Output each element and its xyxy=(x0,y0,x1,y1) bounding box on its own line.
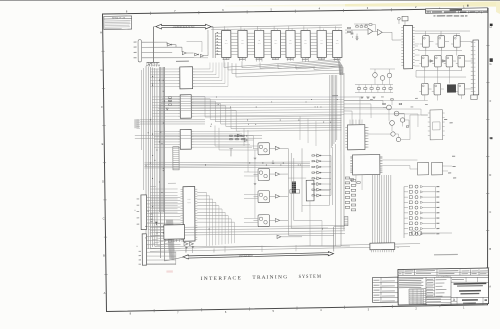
bundle B labels xyxy=(134,119,139,128)
svg-text:U2: U2 xyxy=(242,40,244,42)
antenna T symbol xyxy=(230,149,232,157)
IC U4 top pin stubs xyxy=(273,26,275,30)
IC row left pin number marks xyxy=(217,32,218,33)
IC U17 counter tall xyxy=(403,25,412,68)
svg-text:T R A I N I N G: T R A I N I N G xyxy=(252,275,287,281)
svg-text:A: A xyxy=(104,291,106,295)
wire resistor row top xyxy=(354,23,368,25)
IC U30 xyxy=(347,125,365,150)
test point row xyxy=(149,65,150,66)
flip-flop U22 xyxy=(435,55,442,67)
connector J2 pins xyxy=(146,197,180,198)
parts list text lines xyxy=(399,278,423,279)
wire J1 pin 3 xyxy=(142,51,172,54)
and gate A2 xyxy=(182,51,186,54)
IC U3 top pin stubs xyxy=(257,26,259,30)
flip-flop U19 xyxy=(438,36,445,48)
wire bus to J3 corner xyxy=(172,229,174,237)
wire osc to U17 xyxy=(391,32,393,40)
svg-text:H: H xyxy=(100,31,102,35)
wire U9 right fanout xyxy=(195,68,210,70)
wire FF row3 drops xyxy=(424,95,426,100)
IC U7 74LS latch xyxy=(317,30,326,57)
notes text lines xyxy=(105,20,131,21)
bus top bend xyxy=(146,62,154,66)
revisions row2 text marks xyxy=(427,11,430,12)
wire long runs into right section xyxy=(344,99,428,102)
svg-text:B: B xyxy=(489,247,491,251)
module box M1 xyxy=(417,162,428,175)
wire FF cells left feeds xyxy=(244,145,258,148)
wire stubs on U30 top xyxy=(349,120,351,125)
svg-text:A: A xyxy=(489,284,491,288)
IC U6 74LS latch xyxy=(301,30,310,57)
wire stair fan from U12 xyxy=(197,191,206,193)
wire feed band into right section xyxy=(344,96,360,98)
gray fan wedge under bus xyxy=(166,219,174,259)
IC U7 bottom pins xyxy=(318,58,320,60)
wire opto ladder feeds from U32 area xyxy=(355,175,357,186)
svg-text:74LS: 74LS xyxy=(320,43,323,45)
registration tick above top border xyxy=(467,5,468,7)
IC U9 label above xyxy=(176,61,189,62)
IC U8 top pin stubs xyxy=(335,26,337,30)
flip-flop U20 xyxy=(453,36,460,48)
svg-text:NOTES: 74 - XX: NOTES: 74 - XX xyxy=(112,17,126,19)
auxiliary table text xyxy=(373,279,379,282)
IC U2 bottom pins xyxy=(239,58,241,61)
wire bottom risers to arrow xyxy=(224,246,226,252)
connector J3 pin labels xyxy=(139,250,141,253)
wire gate cluster xyxy=(248,139,254,141)
registration tab right edge xyxy=(490,24,493,26)
ground near FF1 xyxy=(254,157,257,159)
wire band A right drops xyxy=(299,116,301,140)
resistor diode row 1 xyxy=(230,135,233,136)
wire Q4 Q5 links xyxy=(367,133,390,136)
bus B end arrowhead xyxy=(155,222,157,225)
middle column text xyxy=(427,278,433,281)
wire from right arrowhead xyxy=(211,26,213,28)
IC U12 left pins xyxy=(181,188,183,190)
svg-text:E: E xyxy=(102,142,104,146)
svg-text:DATA BUS D0-D7: DATA BUS D0-D7 xyxy=(239,254,253,257)
connector J5 foot xyxy=(471,95,477,100)
wire gate A2 output xyxy=(186,52,193,54)
IC U1 left pin rungs xyxy=(218,32,222,34)
gate G4 after FF4 xyxy=(275,218,279,222)
connector J4 pin ticks xyxy=(370,250,372,252)
connector J5 pins xyxy=(471,41,473,43)
ground cluster right xyxy=(360,96,363,98)
wire long horizontal bundle A stepped xyxy=(163,96,205,97)
company name xyxy=(454,283,487,285)
wire long returns under IC row xyxy=(228,66,341,70)
wire bus feeds to IC U10 xyxy=(152,95,178,98)
capacitor C7 xyxy=(272,160,274,162)
border zone ticks right xyxy=(486,44,489,46)
wire right-center horizontals lower xyxy=(288,177,306,180)
drawing title text xyxy=(459,290,481,292)
wire J1 pin 1 xyxy=(142,41,167,44)
flip-flop unit FF2 xyxy=(258,168,269,180)
relay K1 contacts xyxy=(290,190,294,193)
IC U9 decoder xyxy=(180,67,193,89)
wire modules right xyxy=(443,165,452,167)
flip-flop unit FF1 xyxy=(258,143,269,155)
IC U12 CPU peripheral xyxy=(183,187,195,242)
buffer ladder output vertical xyxy=(330,156,332,196)
cap C8 xyxy=(351,36,353,38)
small labels left of U12 xyxy=(168,182,176,185)
IC U1 74LS latch xyxy=(222,30,231,57)
svg-text:ADDRESS BUS A0-A15: ADDRESS BUS A0-A15 xyxy=(173,25,195,28)
connector J5 tall right xyxy=(473,40,479,95)
wire row2-row3 link xyxy=(416,70,462,72)
extra bus lines upper left xyxy=(140,70,143,150)
flip-flop U23 xyxy=(446,55,453,67)
resistor pair above opto xyxy=(350,179,353,181)
wire gate A1 output xyxy=(172,44,176,46)
wire drops into U31 top xyxy=(417,114,419,127)
svg-text:I N T E R F A C E: I N T E R F A C E xyxy=(201,276,241,282)
gate G1 after FF1 xyxy=(275,146,279,150)
resistor R7 xyxy=(391,99,394,100)
IC row input bus left xyxy=(215,32,219,34)
IC U9 pins xyxy=(178,68,180,70)
svg-text:74LS: 74LS xyxy=(289,43,292,45)
title block main verticals xyxy=(425,277,427,305)
wire top runs to FF grid xyxy=(415,30,470,32)
drawing border frame xyxy=(103,8,489,311)
IC U5 left pin rungs xyxy=(280,32,285,34)
svg-text:C: C xyxy=(103,217,105,221)
parts grid xyxy=(409,289,426,304)
IC U1 bottom pins xyxy=(222,58,224,60)
wire osc chain xyxy=(345,29,368,32)
svg-text:B: B xyxy=(103,254,105,258)
IC U12 right pins xyxy=(195,188,197,190)
flip-flop U24 xyxy=(458,55,465,67)
IC U8 74LS latch xyxy=(333,30,342,57)
wire FF grid to J5 xyxy=(465,40,473,42)
svg-text:S Y S T E M: S Y S T E M xyxy=(299,275,322,280)
wire U11 right fanout xyxy=(193,131,239,132)
wire right section verticals xyxy=(351,111,353,125)
wire U12 to data bus xyxy=(185,247,187,253)
IC U17 pins left xyxy=(401,27,403,29)
resistor row xyxy=(357,88,360,90)
approvals row right xyxy=(451,282,489,283)
flip-flop U21 xyxy=(422,55,429,67)
connector J3 bar xyxy=(142,234,146,265)
svg-text:74LS: 74LS xyxy=(258,43,261,45)
IC U13 driver xyxy=(306,180,314,201)
indicator rows with LEDs xyxy=(409,185,412,188)
crystal Y1 xyxy=(402,16,408,21)
bus arrow ADDRESS BUS top xyxy=(156,23,211,29)
ground osc xyxy=(356,38,359,40)
junction dots on bus xyxy=(156,233,157,234)
IC U6 top pin stubs xyxy=(303,26,305,30)
wire gate A2 long out xyxy=(187,40,202,42)
revisions table xyxy=(426,8,488,13)
wire bus arrow stem xyxy=(154,26,156,28)
IC U32 pins right xyxy=(380,156,382,158)
capacitor C1 xyxy=(351,30,353,33)
IC U2 top pin stubs xyxy=(240,26,242,30)
transistor row mid xyxy=(373,73,378,78)
module box M2 xyxy=(431,162,442,175)
wire row1-row2 link xyxy=(418,50,462,51)
IC U11 buffer xyxy=(180,129,191,149)
left edge comp column top right section xyxy=(348,27,351,28)
IC U28 dark module xyxy=(447,84,456,92)
wire U17 to FF grid right pins xyxy=(415,43,420,45)
ground near FF2 xyxy=(254,182,256,184)
resistor RP1 xyxy=(168,97,171,99)
IC U6 left pin rungs xyxy=(295,32,301,34)
connector J1 pin labels xyxy=(134,42,137,43)
wire bottom right link xyxy=(422,232,452,235)
resistor R1 xyxy=(356,26,359,27)
IC U1 top pin stubs xyxy=(224,26,226,30)
wire feedback loop xyxy=(364,25,366,27)
label A15-A8 under band xyxy=(332,95,338,96)
transistor Q3 xyxy=(390,121,395,126)
IC U4 bottom pins xyxy=(272,58,274,60)
copyright note bottom right xyxy=(434,254,458,256)
flip-flop U26 xyxy=(434,83,441,95)
registration tab right edge second xyxy=(490,58,493,62)
wire FF cells vertical link xyxy=(254,150,257,219)
wire bundle vertical at right of IC row xyxy=(338,60,341,75)
svg-text:U4: U4 xyxy=(275,40,277,42)
revisions header word xyxy=(450,9,462,10)
border zone ticks top xyxy=(150,12,152,15)
drawing number xyxy=(462,299,478,301)
IC U8 left pin rungs xyxy=(326,32,332,34)
wire bundle D bottom xyxy=(150,224,345,228)
ladder input resistors xyxy=(312,155,315,156)
connector J2 bar xyxy=(141,195,147,230)
auxiliary table left of title block xyxy=(372,277,397,302)
wire right-center vertical extensions xyxy=(328,150,331,205)
wire J1 pin 4 xyxy=(142,57,194,59)
svg-text:74LS: 74LS xyxy=(274,43,277,45)
svg-text:G: G xyxy=(100,68,102,72)
svg-text:J3: J3 xyxy=(136,246,138,248)
IC U30 pins right xyxy=(365,126,367,128)
registration mark right edge lower xyxy=(490,137,492,139)
IC U32 xyxy=(352,155,379,175)
IC U3 74LS latch xyxy=(255,30,264,57)
IC U5 74LS latch xyxy=(286,30,295,57)
IC U30 pins left xyxy=(345,126,347,128)
wire bus feeds to IC U12 upper pins xyxy=(150,188,178,191)
wire U31 feeds xyxy=(410,114,428,117)
gate A4 xyxy=(200,54,203,57)
IC U2 left pin rungs xyxy=(231,32,238,34)
transistor Q5 xyxy=(396,137,400,141)
flip-flop U27 xyxy=(458,83,465,95)
gate column extra xyxy=(277,235,281,238)
IC U3 bottom pins xyxy=(255,58,257,62)
wire bundle under IC row xyxy=(223,60,225,67)
IC U31 inner xyxy=(433,122,440,130)
fan wedge lines xyxy=(166,219,170,259)
wire long horizontal bundle B xyxy=(140,119,205,121)
IC U14 bus driver xyxy=(164,225,185,240)
svg-text:U1: U1 xyxy=(225,40,227,42)
junction dots center field xyxy=(321,229,324,230)
transistor Q7 Q8 bottom right xyxy=(411,231,415,235)
resistor R2b xyxy=(365,26,368,27)
wire bus feeds to IC U9 xyxy=(150,68,178,71)
IC U31 box xyxy=(430,110,443,140)
resistor ladder RL1 xyxy=(345,177,349,179)
svg-text:74LS: 74LS xyxy=(225,43,228,45)
svg-text:J4: J4 xyxy=(397,247,399,249)
wire above data bus xyxy=(155,243,341,249)
svg-text:U6: U6 xyxy=(304,40,306,42)
wire bus feeds to IC U11 xyxy=(154,130,178,133)
wire bundle C lower xyxy=(144,160,310,164)
inverter gate A3 xyxy=(195,53,198,56)
resistor R6 xyxy=(399,103,402,104)
scan top edge line xyxy=(0,0,500,2)
main vertical bus lines xyxy=(145,66,147,250)
connector J4 horizontal xyxy=(370,243,395,250)
wire resistor row xyxy=(355,84,393,85)
IC U30 right pin comb xyxy=(365,126,368,128)
IC U14 bottom pins xyxy=(165,239,167,242)
svg-text:D: D xyxy=(102,179,104,183)
IC U4 74LS latch xyxy=(271,30,280,57)
list of materials band xyxy=(398,276,489,279)
flip-flop unit FF4 xyxy=(258,215,269,227)
middle column cells xyxy=(426,280,434,282)
gate cluster center xyxy=(237,134,240,137)
wire crystal leads xyxy=(398,20,400,24)
bus arrow DATA BUS bottom xyxy=(183,252,334,260)
wire led column feed xyxy=(403,187,406,238)
svg-text:D: D xyxy=(489,173,491,177)
wire FF to bus drops xyxy=(243,128,245,146)
IC U31 pins xyxy=(428,112,430,114)
op-amp U16 xyxy=(377,29,382,35)
top strip text xyxy=(399,270,402,273)
IC row under-box labels xyxy=(223,59,229,60)
yellowed paper edge top right xyxy=(225,4,345,7)
resistor ladder RL2 xyxy=(351,179,355,181)
tiny labels right section xyxy=(370,98,373,101)
wire bottom collector lines xyxy=(150,244,420,249)
wire gate A4 out xyxy=(204,55,208,57)
IC U8 bottom pins xyxy=(333,58,335,61)
terminal block dark xyxy=(292,182,296,194)
gate G3 after FF3 xyxy=(275,194,279,198)
middle lower cells xyxy=(426,296,451,299)
svg-text:U7: U7 xyxy=(321,40,323,42)
bus continuation to data bus xyxy=(159,212,162,258)
connector J1 left oval xyxy=(138,40,142,62)
wire transistor row leads xyxy=(374,77,376,84)
svg-text:74LS: 74LS xyxy=(336,43,339,45)
ladder foot comb xyxy=(344,217,348,226)
svg-text:8255: 8255 xyxy=(187,202,190,204)
wire FF grid column drops xyxy=(425,47,427,55)
title block top strip row xyxy=(398,274,489,277)
svg-text:74LS: 74LS xyxy=(304,43,307,45)
wire end labels right of U31 xyxy=(444,119,447,120)
stamp remnant faint pink xyxy=(166,270,172,272)
wire Q cluster xyxy=(383,106,387,108)
driver triangle T1 xyxy=(184,242,188,245)
transistor Q1 xyxy=(387,105,392,110)
flip-flop unit FF3 xyxy=(258,191,269,203)
resistor R8 xyxy=(406,126,409,127)
IC U32 pins left xyxy=(350,156,352,158)
svg-text:U3: U3 xyxy=(258,40,260,42)
driver triangle T2 xyxy=(189,242,193,245)
wire U32 to modules xyxy=(382,159,417,160)
svg-text:U8: U8 xyxy=(336,40,338,42)
border zone ticks bottom xyxy=(153,309,155,312)
size and number row xyxy=(451,297,489,298)
svg-text:D: D xyxy=(453,298,455,302)
revisions table verticals xyxy=(429,11,431,13)
rev letter xyxy=(485,299,487,301)
IC U7 top pin stubs xyxy=(319,26,321,30)
transistor Q4 xyxy=(391,132,395,136)
IC U5 top pin stubs xyxy=(288,26,290,30)
connector J2 pin labels xyxy=(137,197,140,200)
inverter gate A1 xyxy=(167,43,171,46)
wire J1 pin 2 xyxy=(142,47,182,48)
op-amp U15 oscillator xyxy=(368,28,373,34)
wire label stubs left of bus xyxy=(137,119,140,121)
resistor diode row 2 xyxy=(230,139,233,140)
svg-text:G: G xyxy=(489,62,491,66)
vertical bundle to J4 xyxy=(371,175,374,243)
wire bus above IC row xyxy=(211,25,342,27)
wire fan to IC U12 xyxy=(146,222,178,225)
capacitor C4 xyxy=(356,34,358,36)
IC U4 left pin rungs xyxy=(264,32,271,34)
diode CR1 xyxy=(166,108,168,110)
buffer ladder with inverters xyxy=(317,154,320,157)
wire top area gates to row xyxy=(194,57,208,60)
transistor Q2 xyxy=(394,111,399,116)
vertical bundle right-center xyxy=(328,75,331,150)
wire FF1 long feeds xyxy=(215,145,244,148)
svg-text:U12: U12 xyxy=(188,199,191,201)
gate G2 after FF2 xyxy=(275,172,279,176)
wire J3 wrap xyxy=(175,251,177,264)
wire U10 right fanout xyxy=(193,95,344,100)
svg-text:74LS: 74LS xyxy=(241,43,244,45)
IC U10 pins xyxy=(178,96,180,98)
IC U17 pins right xyxy=(413,26,415,28)
IC U6 bottom pins xyxy=(302,58,304,62)
wire FF column verticals nested xyxy=(288,148,289,235)
connector J3 pins xyxy=(146,236,180,237)
IC U2 74LS latch xyxy=(238,30,247,57)
svg-text:J2: J2 xyxy=(134,210,136,212)
resistor R3 feedback xyxy=(369,24,372,26)
parts grid text xyxy=(410,288,424,291)
